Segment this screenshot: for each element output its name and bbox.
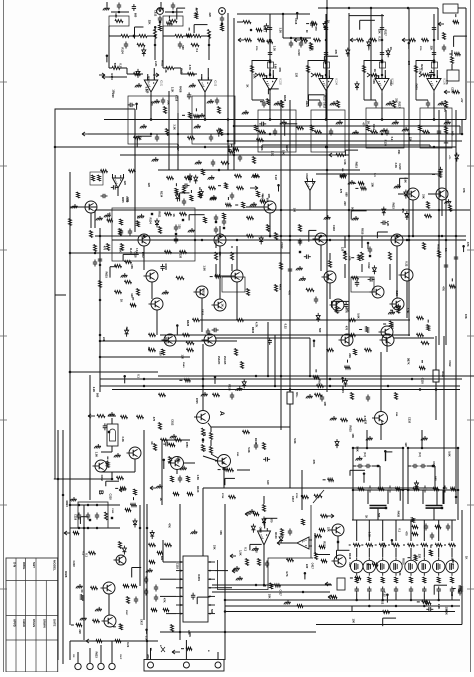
node N96: [106, 55, 109, 58]
resistor R255: [355, 577, 361, 580]
svg-text:R615: R615: [201, 289, 205, 296]
svg-text:R217: R217: [383, 30, 387, 37]
wire bus y320: [200, 319, 410, 321]
node N61: [419, 388, 422, 391]
node N176: [99, 264, 102, 267]
wire in2: [328, 70, 330, 79]
node N118: [381, 133, 384, 136]
node N97: [296, 12, 299, 15]
svg-text:47K: 47K: [401, 208, 405, 213]
svg-text:2.2K: 2.2K: [444, 609, 448, 615]
resistor R279: [134, 489, 137, 495]
resistor R73: [165, 213, 172, 216]
node N82: [224, 599, 227, 602]
wire W70: [175, 183, 177, 186]
wire in2: [272, 70, 274, 79]
svg-text:R623: R623: [437, 244, 441, 251]
wire rc right: [402, 448, 404, 490]
wire W151: [359, 329, 362, 331]
wire W58: [227, 197, 229, 200]
ground GND20: [195, 160, 202, 164]
wire W134: [269, 584, 272, 586]
svg-text:C118: C118: [174, 95, 178, 102]
resistor R249: [81, 595, 84, 601]
svg-text:4.7K: 4.7K: [382, 543, 386, 549]
resistor R139: [396, 488, 401, 491]
resistor R145: [302, 496, 309, 499]
wire rail x290 lower: [289, 404, 291, 488]
wire rail x147: [146, 504, 148, 660]
wire gate b5: [410, 548, 412, 557]
node N3: [348, 7, 351, 10]
wire vas2: [236, 282, 238, 321]
transistor Q10: [405, 188, 420, 200]
wire W72: [109, 267, 111, 278]
wire fuse2 bottom: [435, 382, 437, 420]
node N52: [69, 252, 72, 255]
wire y126 jog: [459, 126, 461, 134]
wire gr1: [361, 544, 363, 546]
resistor R277: [187, 493, 193, 496]
pad N169: [89, 519, 91, 521]
wire q col2: [236, 246, 238, 271]
wire input loop: [252, 61, 270, 101]
node N87: [381, 599, 384, 602]
resistor R86: [215, 252, 218, 260]
wire W54: [109, 213, 111, 216]
wire bus y236: [95, 235, 466, 237]
svg-text:1.5K: 1.5K: [343, 159, 347, 165]
node N23: [325, 118, 328, 121]
wire q pair join: [101, 471, 112, 473]
ground GND33: [170, 434, 177, 438]
svg-text:CN: CN: [72, 654, 74, 658]
wire bus y155: [120, 154, 349, 156]
wire qa-qb: [203, 456, 218, 461]
capacitor C105: [230, 393, 234, 400]
resistor R30: [357, 39, 364, 42]
wire q row right2: [394, 337, 434, 339]
wire W37: [408, 43, 410, 49]
svg-text:0.1: 0.1: [444, 248, 448, 252]
transistor Q29: [114, 555, 127, 565]
wire bus y119: [104, 119, 466, 121]
pad N157: [433, 61, 435, 63]
transistor Q15: [399, 269, 414, 281]
resistor R178: [319, 546, 325, 549]
resistor R258: [366, 327, 369, 333]
diode D1: [188, 174, 192, 183]
node N191: [143, 235, 146, 238]
diode D12: [455, 153, 459, 162]
svg-text:2.2K: 2.2K: [406, 308, 410, 314]
resistor R57: [445, 127, 448, 134]
wire W71: [110, 266, 116, 268]
title block column line: [15, 558, 17, 672]
svg-text:IC101: IC101: [160, 80, 162, 87]
svg-text:47K: 47K: [278, 67, 282, 72]
wire ch left drop: [108, 36, 110, 68]
capacitor C89: [355, 280, 359, 287]
resistor R283: [315, 394, 322, 397]
resistor R105: [299, 225, 302, 232]
svg-text:47K: 47K: [466, 242, 470, 247]
wire W24: [135, 26, 144, 28]
node N107: [363, 472, 366, 475]
svg-text:S-N: S-N: [13, 562, 17, 567]
node N35: [150, 118, 153, 121]
svg-text:C612: C612: [170, 419, 174, 426]
wire input stub: [109, 76, 127, 78]
node N57: [387, 385, 390, 388]
svg-text:+0V-: +0V-: [448, 155, 450, 160]
wire up1: [352, 490, 354, 520]
box feedback network: [258, 110, 296, 152]
wire gate b1: [356, 548, 358, 557]
resistor R33: [393, 101, 396, 108]
wire W3: [109, 67, 112, 69]
wire W48: [344, 150, 346, 156]
arrow terminal A12: [444, 90, 450, 94]
svg-text:220: 220: [343, 201, 347, 206]
svg-text:4.7K: 4.7K: [285, 571, 289, 577]
diode D32: [382, 207, 386, 216]
resistor R64: [129, 170, 136, 173]
wire W32: [260, 101, 263, 103]
wire to bar l: [422, 490, 424, 504]
pot arrow: [313, 490, 324, 503]
wire rail x63: [62, 430, 64, 664]
wire W96: [107, 456, 109, 459]
wire gate 6: [423, 520, 425, 541]
capacitor C49: [366, 395, 370, 402]
transistor Q4: [149, 298, 164, 310]
transistor Q3: [144, 270, 159, 282]
resistor R242: [419, 367, 425, 370]
svg-text:33K: 33K: [147, 347, 151, 352]
resistor R123: [137, 416, 144, 419]
resistor R143: [314, 495, 322, 498]
wire W88: [399, 178, 401, 187]
resistor R247: [186, 647, 192, 650]
resistor R113: [329, 261, 332, 268]
ground GND5: [189, 83, 196, 87]
diode D13: [217, 128, 221, 137]
ground GND65: [388, 310, 395, 314]
resistor R240: [184, 379, 190, 382]
wire src 8: [451, 594, 453, 601]
node N99: [277, 184, 280, 187]
resistor R248: [119, 624, 122, 630]
svg-text:C118: C118: [74, 514, 78, 521]
svg-text:220: 220: [158, 351, 162, 356]
resistor R111: [280, 263, 283, 270]
capacitor C67: [367, 587, 371, 594]
resistor R62: [253, 157, 256, 164]
resistor R100: [389, 252, 392, 260]
wire vertical bus x409: [408, 8, 410, 336]
capacitor C29: [437, 129, 441, 136]
wire W74: [331, 301, 333, 307]
wire W146: [433, 585, 435, 594]
svg-text:22K: 22K: [327, 527, 331, 532]
resistor R9: [164, 107, 167, 114]
connector pin CN9: [215, 662, 221, 668]
resistor R188: [435, 544, 442, 547]
svg-text:R623: R623: [180, 68, 184, 75]
wire W143: [408, 557, 411, 559]
svg-text:C210: C210: [408, 417, 412, 424]
wire W36: [323, 56, 325, 61]
ground GND46: [284, 600, 291, 604]
svg-text:R134: R134: [149, 218, 153, 225]
node N140: [280, 375, 283, 378]
node N13: [208, 35, 211, 38]
capacitor C4: [161, 98, 165, 105]
resistor R92: [247, 289, 250, 296]
node N194: [236, 239, 239, 242]
diode D11: [367, 40, 371, 49]
capacitor C77: [430, 533, 434, 540]
svg-text:C915: C915: [111, 508, 113, 514]
wire qr base: [398, 193, 408, 195]
node N188: [269, 235, 272, 238]
resistor R8: [134, 73, 141, 76]
svg-text:5.6K: 5.6K: [145, 87, 149, 93]
node N89: [437, 599, 440, 602]
wire right drop: [465, 8, 467, 120]
resistor R257: [429, 550, 432, 556]
node N106: [384, 450, 387, 453]
svg-text:C611: C611: [126, 197, 128, 203]
wire fb2 down: [433, 508, 435, 520]
title block column line: [25, 558, 27, 672]
resistor R39: [310, 43, 313, 50]
resistor R174: [131, 585, 137, 588]
wire bus y210: [95, 209, 470, 211]
wire enclosure right edge: [134, 109, 136, 232]
connector pin CN6: [109, 663, 115, 669]
svg-text:120: 120: [123, 181, 127, 186]
svg-text:47K: 47K: [162, 598, 166, 603]
box trim pot: [324, 62, 330, 68]
resistor R176: [115, 640, 121, 643]
wire W112: [385, 452, 387, 461]
capacitor C57: [443, 486, 447, 493]
resistor R13: [193, 35, 201, 38]
wire vertical bus x349: [348, 13, 350, 345]
svg-text:IN: IN: [305, 30, 308, 33]
resistor R161: [163, 609, 169, 612]
svg-text:IC401: IC401: [197, 574, 201, 581]
resistor R183: [366, 544, 373, 547]
ground GND27: [162, 290, 169, 294]
ground GND11: [140, 124, 147, 128]
node N129: [455, 235, 458, 238]
resistor R227: [175, 188, 178, 194]
resistor R116: [327, 349, 334, 352]
ground GND55: [94, 444, 101, 448]
wire em r3: [389, 264, 391, 280]
node N56: [329, 378, 332, 381]
svg-text:5.6K: 5.6K: [447, 451, 451, 457]
wire src 1: [356, 594, 358, 601]
wire bus y386: [100, 385, 460, 387]
resistor R48: [220, 129, 223, 136]
node N195: [329, 239, 332, 242]
wire W113: [350, 469, 365, 471]
wire W125: [181, 648, 184, 650]
wire gate b2: [368, 548, 370, 557]
svg-text:C210: C210: [450, 87, 454, 94]
resistor R254: [459, 586, 462, 592]
svg-text:C417: C417: [311, 563, 315, 570]
node N43: [408, 133, 411, 136]
node N181: [274, 385, 277, 388]
wire y427 to right: [211, 426, 290, 428]
wire W100: [105, 481, 107, 486]
ground GND48: [152, 157, 159, 161]
node N75: [62, 494, 65, 497]
node N116: [269, 133, 272, 136]
wire vertical x169: [168, 91, 170, 170]
wire W111: [386, 451, 393, 453]
svg-text:1K: 1K: [172, 214, 176, 217]
capacitor C99: [344, 302, 348, 309]
ground GND59: [191, 530, 198, 534]
transistor Q17: [330, 299, 345, 311]
wire rc right: [457, 448, 459, 490]
resistor R223: [190, 195, 193, 201]
svg-text:22K: 22K: [377, 29, 381, 34]
node N16: [269, 39, 272, 42]
resistor R16: [166, 67, 174, 70]
wire bus y134: [88, 133, 462, 135]
wire W34: [267, 89, 269, 94]
svg-text:C118: C118: [259, 527, 263, 534]
svg-text:33K: 33K: [397, 150, 401, 155]
svg-text:C612: C612: [280, 242, 284, 249]
resistor R210: [267, 99, 270, 105]
wire gate 8: [451, 520, 453, 541]
ground GND19: [380, 128, 387, 132]
resistor R46: [166, 129, 169, 136]
wire x268 drop: [267, 322, 269, 376]
pad N160: [299, 251, 301, 253]
wire loop bottom: [252, 99, 264, 101]
wire W89: [463, 246, 465, 252]
svg-text:0.1: 0.1: [398, 528, 402, 532]
resistor R25: [301, 39, 308, 42]
diode D7: [386, 48, 390, 57]
svg-text:47K: 47K: [146, 654, 150, 659]
wire W93: [115, 487, 118, 489]
capacitor C2: [158, 16, 162, 23]
svg-text:2SB: 2SB: [395, 412, 397, 417]
wire gate 1: [356, 520, 358, 541]
wire q-chain: [143, 246, 145, 271]
wire loop top: [162, 439, 190, 441]
capacitor C39: [206, 329, 210, 336]
node N66: [402, 489, 405, 492]
node N67: [407, 447, 410, 450]
transistor Q28: [93, 460, 108, 472]
capacitor C75: [424, 524, 428, 531]
svg-text:120: 120: [404, 442, 408, 447]
svg-text:100: 100: [293, 208, 297, 213]
svg-text:220: 220: [78, 629, 82, 634]
arrow terminal A3: [238, 38, 244, 42]
resistor R27: [315, 74, 322, 77]
frame tick right 4: [467, 335, 474, 337]
svg-text:10K: 10K: [119, 248, 123, 253]
wire W160: [211, 454, 218, 458]
capacitor C48: [320, 395, 324, 402]
resistor R155: [315, 535, 322, 538]
resistor R180: [319, 529, 325, 532]
pad N170: [377, 465, 379, 467]
wire W91: [451, 278, 453, 281]
pad N175: [182, 219, 184, 221]
wire W139: [382, 618, 384, 626]
svg-text:R217: R217: [323, 541, 327, 548]
resistor R159: [165, 544, 172, 547]
pin 11 IC401 right: [208, 587, 215, 589]
capacitor C88: [381, 221, 388, 225]
frame tick left 3: [0, 249, 7, 251]
capacitor C25: [209, 135, 213, 142]
svg-text:470: 470: [103, 246, 107, 251]
resistor R115: [187, 349, 194, 352]
wire vas1: [219, 246, 221, 300]
svg-text:47K: 47K: [462, 188, 466, 193]
svg-text:IC103: IC103: [279, 79, 281, 86]
node N42: [326, 146, 329, 149]
svg-text:R428: R428: [179, 86, 183, 93]
resistor R236: [449, 285, 455, 288]
svg-text:47K: 47K: [334, 50, 338, 55]
capacitor C33: [101, 194, 108, 198]
wire W126: [113, 626, 116, 628]
capacitor C27: [329, 129, 333, 136]
wire opto in: [111, 418, 113, 424]
pad N162: [215, 221, 217, 223]
wire W141: [337, 549, 350, 551]
arrow terminal A1: [99, 73, 105, 77]
transistor Q18: [390, 298, 405, 310]
frame tick right 3: [467, 249, 474, 251]
ground GND40: [236, 576, 243, 580]
arrow terminal A15: [329, 153, 335, 157]
wire W40: [455, 14, 457, 17]
fuse bar F2: [426, 506, 443, 509]
box relay RY1: [337, 578, 345, 590]
wire driver B feed: [380, 352, 382, 412]
svg-text:1K: 1K: [150, 441, 154, 444]
svg-text:0.22: 0.22: [382, 592, 386, 598]
pad N152: [133, 35, 135, 37]
wire rail x84: [83, 505, 85, 640]
ground GND58: [356, 456, 363, 460]
svg-text:3.3K: 3.3K: [418, 68, 422, 74]
resistor R266: [92, 175, 95, 181]
wire ch top: [165, 11, 183, 13]
svg-text:SHT: SHT: [32, 562, 36, 568]
svg-text:IC102: IC102: [214, 80, 216, 87]
node N77: [87, 504, 90, 507]
wire W66: [122, 254, 124, 260]
node N189: [320, 235, 323, 238]
